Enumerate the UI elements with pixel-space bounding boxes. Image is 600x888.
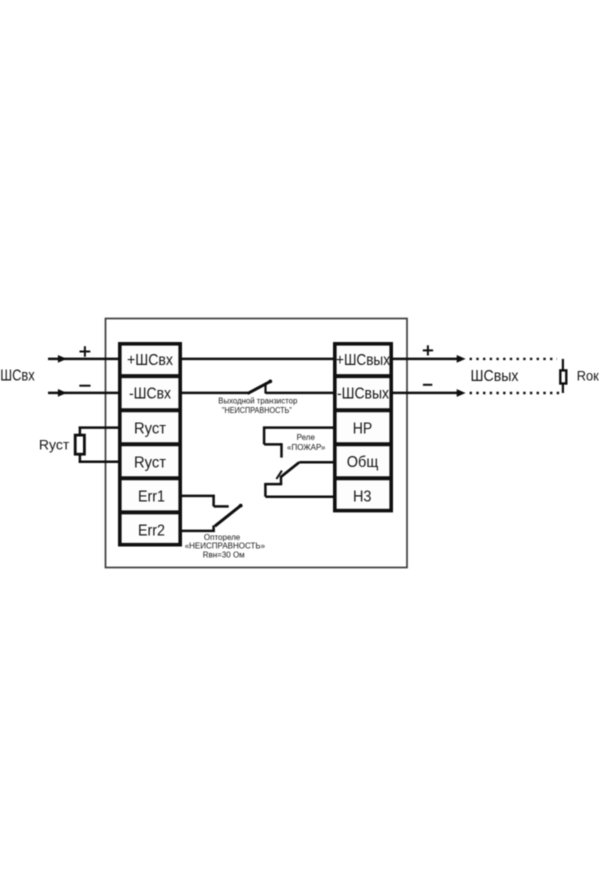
svg-text:+ШСвх: +ШСвх xyxy=(127,352,173,369)
svg-text:-ШСвых: -ШСвых xyxy=(337,385,389,402)
svg-text:-ШСвх: -ШСвх xyxy=(129,385,171,402)
svg-text:"НЕИСПРАВНОСТЬ": "НЕИСПРАВНОСТЬ" xyxy=(222,406,292,415)
svg-text:Rвн=30 Ом: Rвн=30 Ом xyxy=(203,551,245,560)
svg-text:Реле: Реле xyxy=(297,433,316,442)
svg-text:«НЕИСПРАВНОСТЬ»: «НЕИСПРАВНОСТЬ» xyxy=(185,542,266,551)
svg-text:Н3: Н3 xyxy=(353,489,372,506)
svg-text:«ПОЖАР»: «ПОЖАР» xyxy=(287,443,326,452)
svg-text:НР: НР xyxy=(353,421,373,438)
svg-text:Rок: Rок xyxy=(577,368,600,384)
svg-text:ШСвх: ШСвх xyxy=(0,367,35,384)
svg-text:ШСвых: ШСвых xyxy=(471,368,519,385)
svg-text:Выходной транзистор: Выходной транзистор xyxy=(218,396,298,405)
svg-text:Rуст: Rуст xyxy=(39,436,70,452)
svg-text:Err1: Err1 xyxy=(138,489,165,506)
svg-text:Rуст: Rуст xyxy=(134,454,167,471)
svg-text:Rуст: Rуст xyxy=(134,420,167,437)
svg-text:Оптореле: Оптореле xyxy=(204,533,241,542)
svg-text:+ШСвых: +ШСвых xyxy=(336,352,390,369)
svg-text:Общ: Общ xyxy=(347,454,379,471)
svg-text:Err2: Err2 xyxy=(138,522,165,539)
